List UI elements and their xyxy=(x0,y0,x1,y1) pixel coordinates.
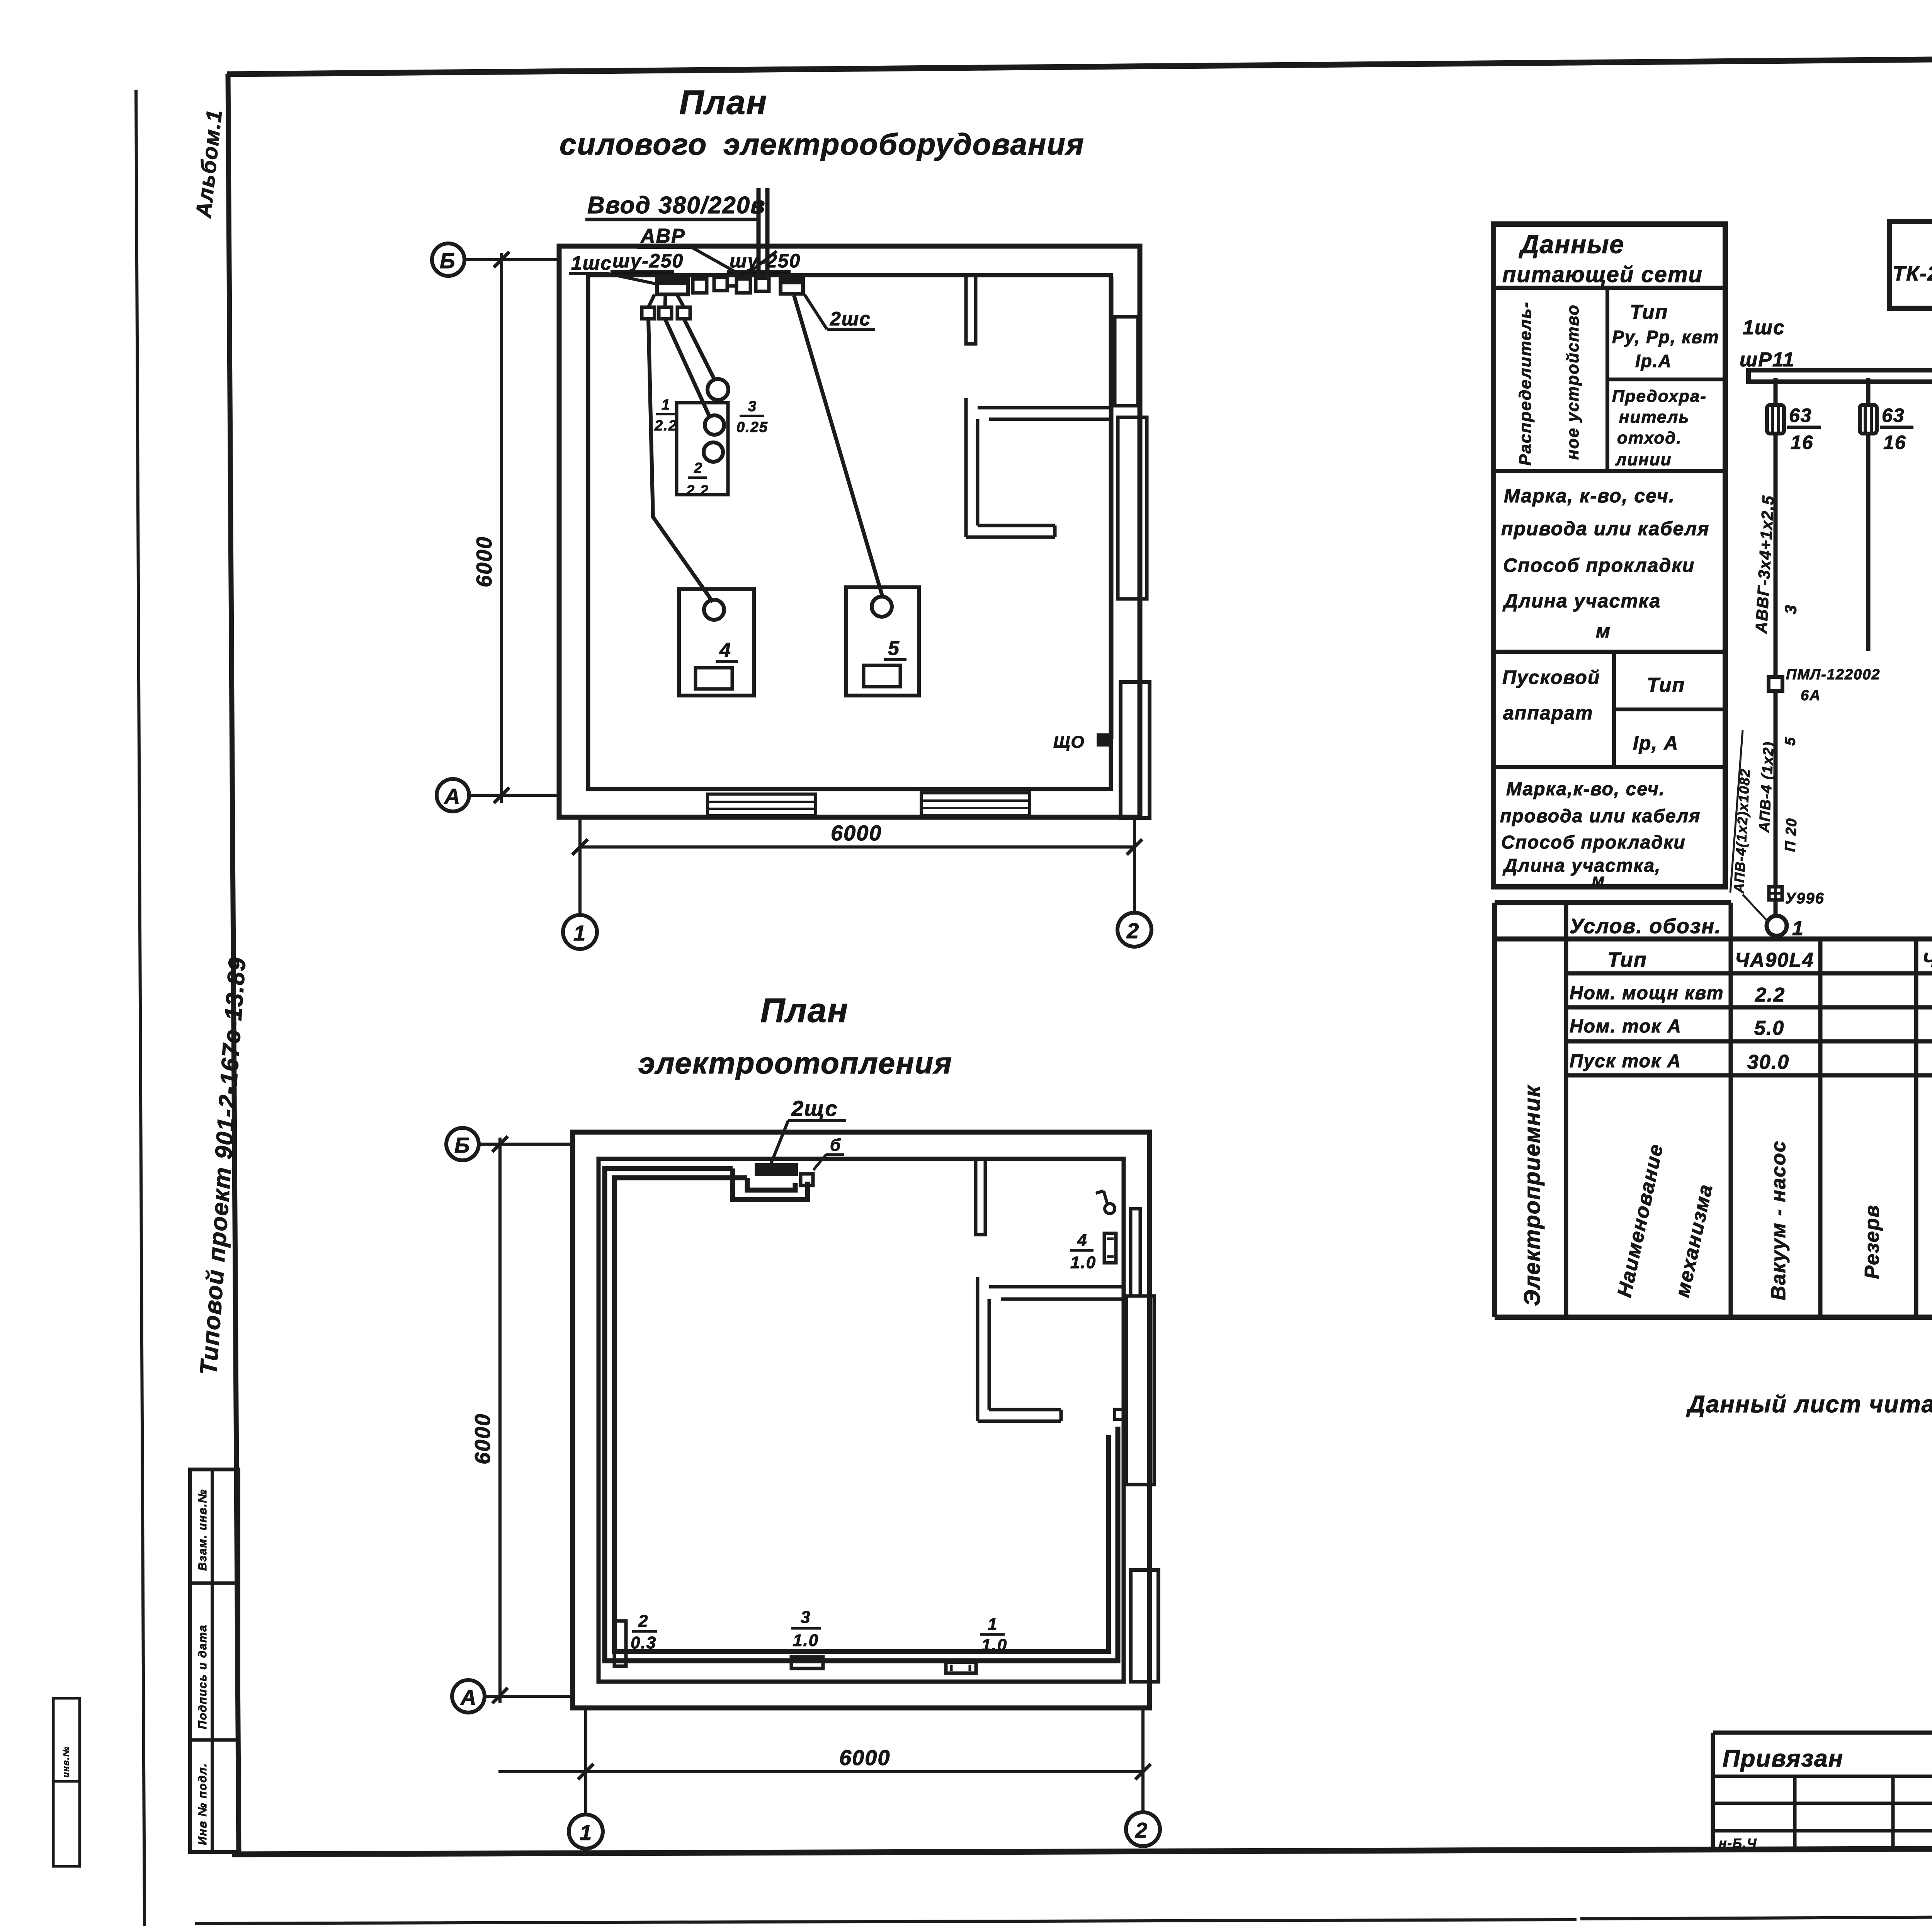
paper fold line left xyxy=(136,90,145,1926)
svg-text:Способ прокладки: Способ прокладки xyxy=(1503,554,1695,576)
svg-text:силового: силового xyxy=(560,127,707,161)
svg-text:электрооборудования: электрооборудования xyxy=(723,127,1085,161)
plan1 motor4 unit box xyxy=(679,589,754,696)
svg-text:питающей сети: питающей сети xyxy=(1502,262,1703,287)
plan1 vertical dimension line xyxy=(500,253,503,803)
plan2 inner wall xyxy=(599,1159,1124,1682)
svg-text:Взам. инв.№: Взам. инв.№ xyxy=(196,1489,209,1571)
svg-text:Длина участка,: Длина участка, xyxy=(1502,855,1661,876)
svg-text:А: А xyxy=(444,784,461,808)
plan1 bottom dimension xyxy=(580,818,1134,915)
plan2 bottom-right pilaster xyxy=(1131,1570,1158,1682)
svg-text:Пуск ток А: Пуск ток А xyxy=(1570,1051,1681,1071)
svg-text:1: 1 xyxy=(1792,917,1804,940)
plan1 outer wall xyxy=(559,246,1140,817)
svg-text:привода или кабеля: привода или кабеля xyxy=(1501,518,1710,539)
svg-text:2: 2 xyxy=(694,460,703,476)
plan1 lighting feeder wire xyxy=(1111,277,1114,739)
svg-text:Распределитель-: Распределитель- xyxy=(1516,301,1535,466)
svg-text:5: 5 xyxy=(888,637,900,660)
plan2 vertical dimension xyxy=(498,1138,502,1703)
svg-text:3: 3 xyxy=(748,398,757,415)
svg-text:Iр.А: Iр.А xyxy=(1635,351,1672,371)
svg-text:нитель: нитель xyxy=(1619,408,1690,427)
svg-text:Ном. ток А: Ном. ток А xyxy=(1570,1016,1682,1037)
svg-text:Iр, А: Iр, А xyxy=(1633,732,1679,754)
margin stamp cell dividers xyxy=(190,1583,238,1740)
svg-text:шР11: шР11 xyxy=(1740,349,1795,371)
svg-text:механизма: механизма xyxy=(1671,1182,1717,1299)
plan2 heater 1 xyxy=(946,1662,976,1673)
plan2 bottom dimension xyxy=(586,1709,1143,1814)
svg-text:А: А xyxy=(460,1685,477,1709)
svg-text:16: 16 xyxy=(1883,432,1906,453)
svg-text:ное устройство: ное устройство xyxy=(1563,304,1582,460)
plan2 axis circle А xyxy=(452,1680,485,1713)
svg-text:шу-250: шу-250 xyxy=(612,250,684,272)
svg-text:1шс: 1шс xyxy=(1743,316,1785,339)
svg-text:Альбом.1: Альбом.1 xyxy=(191,108,226,220)
plan1 inner wall xyxy=(588,275,1111,789)
cabinet ШУ-250 xyxy=(1889,221,1932,308)
svg-text:Ном. мощн квт: Ном. мощн квт xyxy=(1570,983,1724,1003)
svg-text:3: 3 xyxy=(1781,604,1800,615)
svg-text:6000: 6000 xyxy=(472,536,496,587)
plan1 drop squares under 1шс xyxy=(648,294,684,307)
svg-text:6000: 6000 xyxy=(470,1413,495,1464)
svg-text:Подпись и дата: Подпись и дата xyxy=(196,1624,209,1729)
sheet frame left border xyxy=(228,74,239,1853)
plan2 panel 2щс xyxy=(755,1163,798,1176)
plan2 wall nub xyxy=(1115,1409,1126,1419)
svg-text:4: 4 xyxy=(1077,1231,1087,1250)
svg-text:2щс: 2щс xyxy=(791,1096,838,1121)
plan1 panel 2шс xyxy=(781,277,803,294)
plan1 wire to vacuum unit a xyxy=(665,319,710,418)
svg-text:отход.: отход. xyxy=(1617,429,1682,447)
svg-text:У996: У996 xyxy=(1785,890,1825,907)
plan2 axis circle 1 xyxy=(569,1815,603,1849)
plan1 panel ЩО xyxy=(1097,733,1109,747)
svg-text:аппарат: аппарат xyxy=(1503,702,1594,724)
svg-text:м: м xyxy=(1596,620,1611,642)
sheet lower trim line xyxy=(195,1913,1932,1923)
plan1 incoming feeder double line xyxy=(759,188,767,277)
svg-text:2.2: 2.2 xyxy=(686,483,709,499)
feeder 1 load circle xyxy=(1767,916,1787,936)
svg-text:Ввод 380/220в: Ввод 380/220в xyxy=(587,192,766,219)
svg-text:линии: линии xyxy=(1615,450,1672,469)
svg-text:инв.№: инв.№ xyxy=(61,1746,71,1777)
svg-text:5: 5 xyxy=(1782,736,1799,746)
svg-text:30.0: 30.0 xyxy=(1747,1051,1789,1073)
svg-text:Тип: Тип xyxy=(1630,301,1668,323)
svg-text:Пусковой: Пусковой xyxy=(1502,667,1600,688)
feeder 1 fuse xyxy=(1767,405,1784,434)
svg-text:1.0: 1.0 xyxy=(981,1636,1007,1655)
svg-text:63: 63 xyxy=(1882,405,1905,426)
plan1 panel boxes row xyxy=(693,279,707,293)
plan2 light switch symbol xyxy=(1105,1204,1115,1214)
svg-text:ЧА90L4: ЧА90L4 xyxy=(1735,949,1814,971)
plan2 heater 2 xyxy=(614,1621,626,1666)
svg-text:5.0: 5.0 xyxy=(1754,1017,1784,1039)
plan1 motor5 unit box xyxy=(846,587,919,696)
svg-text:6000: 6000 xyxy=(839,1745,891,1770)
corner inventory boxes bottom-left xyxy=(53,1698,80,1781)
plan2 heating cable loop outer xyxy=(605,1168,1118,1661)
plan1 wire to motor 4 xyxy=(648,319,713,602)
svg-text:2: 2 xyxy=(1126,918,1139,943)
plan2 axis circle 2 xyxy=(1126,1812,1160,1846)
sheet frame top border xyxy=(227,51,1932,74)
svg-text:АВР: АВР xyxy=(640,225,685,247)
plan1 vacuum unit circle 1 xyxy=(705,415,724,435)
upper table sub lines xyxy=(1607,288,1725,767)
svg-text:Данный лист читать совместн: Данный лист читать совместно с листом ЭМ… xyxy=(1686,1391,1932,1418)
svg-text:0.25: 0.25 xyxy=(736,419,768,435)
plan2 box б xyxy=(801,1174,813,1185)
svg-text:1: 1 xyxy=(573,921,586,945)
svg-text:Б: Б xyxy=(454,1133,471,1157)
svg-text:1: 1 xyxy=(988,1615,998,1634)
feeder 1: wire xyxy=(1774,378,1778,919)
svg-text:Марка, к-во, сеч.: Марка, к-во, сеч. xyxy=(1504,485,1675,507)
plan2 outer wall xyxy=(573,1132,1150,1708)
svg-text:ЩО: ЩО xyxy=(1053,733,1085,752)
svg-text:Ру, Рр, квт: Ру, Рр, квт xyxy=(1612,327,1719,347)
left signature table xyxy=(1713,1733,1932,1851)
plan1 vacuum unit circle 2 xyxy=(704,442,723,462)
feeder 1 starter xyxy=(1769,677,1782,691)
plan1 wire to vacuum unit b xyxy=(684,319,715,380)
plan2 heater 4 xyxy=(1104,1233,1116,1263)
svg-text:Тип: Тип xyxy=(1607,948,1647,971)
plan1 interior room walls xyxy=(966,398,1111,537)
svg-text:0.3: 0.3 xyxy=(631,1633,656,1652)
svg-text:Б: Б xyxy=(440,248,456,273)
plan1 interior wall stub top xyxy=(966,275,976,344)
svg-text:1: 1 xyxy=(662,397,670,413)
plan2 interior room walls xyxy=(978,1277,1124,1421)
svg-text:4: 4 xyxy=(719,639,731,662)
plan1 vacuum unit motor circle top xyxy=(707,379,728,400)
plan1 window opening bottom 1 xyxy=(707,794,816,816)
svg-text:3: 3 xyxy=(801,1608,811,1627)
svg-text:Тип: Тип xyxy=(1647,674,1685,696)
svg-text:63: 63 xyxy=(1789,405,1812,426)
plan1 axis circle А xyxy=(437,779,469,811)
svg-text:Длина участка: Длина участка xyxy=(1502,590,1661,612)
plan1 bottom-right pilaster xyxy=(1121,682,1150,818)
svg-text:План: План xyxy=(679,83,767,121)
feeder 2 fuse xyxy=(1860,405,1877,434)
svg-text:н-Б.Ч: н-Б.Ч xyxy=(1719,1836,1757,1851)
plan2 heater 3 xyxy=(791,1657,823,1668)
svg-text:АВВГ-3+4+1х2.5: АВВГ-3+4+1х2.5 xyxy=(1930,758,1932,886)
plan1 wire to motor 5 xyxy=(794,296,883,598)
feeder 2 reserve wire xyxy=(1866,378,1871,651)
svg-text:Услов. обозн.: Услов. обозн. xyxy=(1570,915,1721,938)
plan1 window opening bottom 2 xyxy=(921,793,1030,815)
svg-text:Предохра-: Предохра- xyxy=(1612,387,1707,406)
svg-text:План: План xyxy=(760,991,849,1029)
svg-text:м: м xyxy=(1592,871,1605,889)
busbar 1шс xyxy=(1748,370,1932,382)
svg-text:Данные: Данные xyxy=(1519,230,1624,259)
svg-text:16: 16 xyxy=(1791,432,1814,453)
svg-text:Инв № подл.: Инв № подл. xyxy=(196,1763,209,1845)
plan2 right duct column B xyxy=(1126,1296,1154,1485)
svg-text:электроотопления: электроотопления xyxy=(638,1046,952,1080)
svg-text:Электроприемник: Электроприемник xyxy=(1520,1085,1545,1306)
svg-text:1шс: 1шс xyxy=(571,252,612,274)
plan1 panel 1шс xyxy=(657,277,688,294)
feeder 1 У996 box xyxy=(1769,887,1782,900)
plan2 interior wall stub xyxy=(976,1161,985,1235)
svg-text:2: 2 xyxy=(638,1612,648,1631)
upper table row lines xyxy=(1493,288,1725,767)
svg-text:1.0: 1.0 xyxy=(793,1631,819,1650)
svg-text:ПМЛ-122002: ПМЛ-122002 xyxy=(1786,667,1881,683)
svg-text:Способ прокладки: Способ прокладки xyxy=(1501,832,1686,853)
svg-text:6000: 6000 xyxy=(831,821,882,845)
svg-text:Типовой проект 901-2-167с-13: Типовой проект 901-2-167с-13.89 xyxy=(195,956,251,1376)
svg-text:провода или кабеля: провода или кабеля xyxy=(1500,806,1701,827)
plan2 axis circle Б xyxy=(446,1128,479,1160)
load table outer xyxy=(1495,903,1932,1317)
svg-text:П 20: П 20 xyxy=(1782,817,1800,852)
svg-text:Резерв: Резерв xyxy=(1861,1204,1883,1279)
svg-text:6А: 6А xyxy=(1801,687,1821,704)
svg-text:Вакуум - насос: Вакуум - насос xyxy=(1767,1140,1790,1300)
svg-text:б: б xyxy=(830,1136,841,1155)
svg-text:Привязан: Привязан xyxy=(1723,1745,1844,1772)
load table verticals xyxy=(1566,903,1731,1317)
svg-text:ЧА7186: ЧА7186 xyxy=(1922,949,1932,971)
svg-text:1: 1 xyxy=(580,1820,592,1845)
margin stamp column xyxy=(190,1469,238,1852)
svg-text:Марка,к-во, сеч.: Марка,к-во, сеч. xyxy=(1506,779,1665,799)
upper feed-data table outline xyxy=(1493,224,1725,887)
plan2 heating cable jog around panel xyxy=(733,1168,808,1199)
sheet frame bottom border xyxy=(232,1846,1932,1854)
svg-text:ТК-20: ТК-20 xyxy=(1893,262,1932,285)
plan1 right duct column A xyxy=(1115,317,1138,406)
plan1 axis circle 2 xyxy=(1117,913,1151,947)
plan1 vacuum unit box xyxy=(677,403,728,495)
svg-text:2.2: 2.2 xyxy=(654,418,677,434)
svg-text:шу-250: шу-250 xyxy=(730,250,801,272)
plan1 axis circle 1 xyxy=(563,915,597,949)
plan2 right duct column A xyxy=(1131,1209,1140,1296)
svg-text:2.2: 2.2 xyxy=(1755,984,1785,1006)
margin stamp cell split vertical xyxy=(211,1469,214,1852)
svg-text:2: 2 xyxy=(1135,1818,1148,1842)
plan1 right duct column B xyxy=(1118,417,1147,599)
svg-text:Наименование: Наименование xyxy=(1613,1142,1668,1299)
load table horizontals xyxy=(1495,937,1932,942)
svg-text:2шс: 2шс xyxy=(830,308,871,330)
plan2 heating cable loop inner xyxy=(614,1178,1109,1651)
plan1 axis circle Б xyxy=(432,243,464,276)
svg-text:1.0: 1.0 xyxy=(1070,1253,1096,1272)
